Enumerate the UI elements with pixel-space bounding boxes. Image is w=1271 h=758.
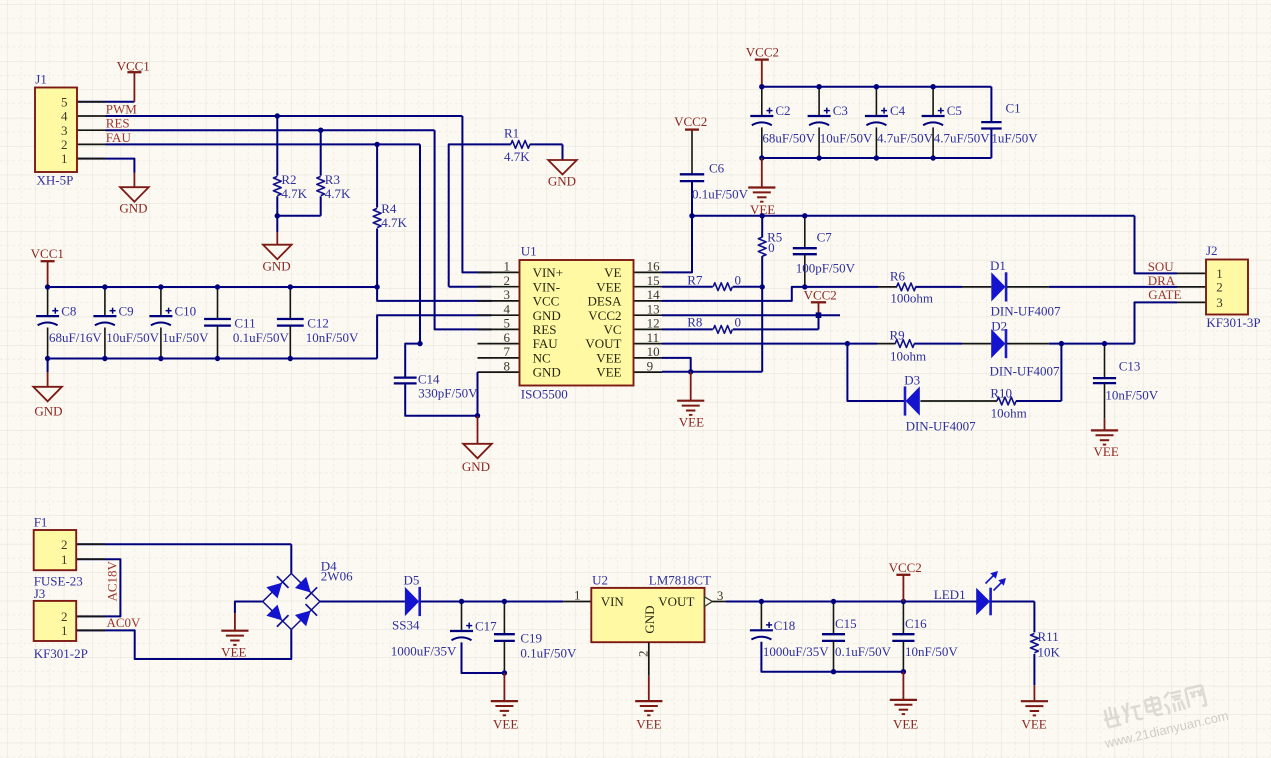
svg-text:0: 0	[768, 240, 775, 255]
svg-text:VEE: VEE	[636, 716, 661, 731]
svg-text:C10: C10	[175, 304, 197, 319]
svg-text:13: 13	[647, 301, 660, 316]
svg-text:C5: C5	[947, 103, 962, 118]
svg-text:GND: GND	[34, 404, 62, 419]
svg-text:DRA: DRA	[1148, 273, 1176, 288]
svg-text:14: 14	[647, 287, 661, 302]
svg-text:GND: GND	[533, 308, 561, 323]
svg-text:2: 2	[61, 609, 68, 624]
svg-text:10: 10	[647, 344, 660, 359]
svg-text:2: 2	[61, 137, 68, 152]
svg-text:R4: R4	[381, 201, 397, 216]
svg-text:C17: C17	[475, 619, 497, 634]
svg-text:R1: R1	[504, 125, 519, 140]
svg-text:4.7K: 4.7K	[325, 186, 351, 201]
svg-text:J3: J3	[34, 586, 46, 601]
svg-text:ISO5500: ISO5500	[521, 387, 568, 402]
svg-text:1uF/50V: 1uF/50V	[991, 131, 1038, 146]
svg-text:VIN-: VIN-	[533, 279, 560, 294]
svg-text:R9: R9	[890, 327, 905, 342]
svg-text:1: 1	[61, 552, 68, 567]
svg-text:VCC1: VCC1	[117, 58, 150, 73]
svg-text:VIN+: VIN+	[533, 265, 563, 280]
svg-text:11: 11	[647, 330, 660, 345]
svg-text:C14: C14	[418, 372, 440, 387]
svg-text:XH-5P: XH-5P	[37, 172, 74, 187]
svg-text:C12: C12	[307, 316, 329, 331]
svg-text:R10: R10	[990, 386, 1012, 401]
svg-text:LM7818CT: LM7818CT	[649, 573, 711, 588]
svg-text:1000uF/35V: 1000uF/35V	[763, 644, 829, 659]
svg-text:VEE: VEE	[1094, 444, 1119, 459]
svg-text:F1: F1	[34, 515, 48, 530]
svg-text:J1: J1	[35, 71, 47, 86]
svg-text:4.7K: 4.7K	[504, 149, 530, 164]
svg-text:VEE: VEE	[493, 716, 518, 731]
svg-text:68uF/16V: 68uF/16V	[49, 330, 102, 345]
svg-text:0: 0	[735, 315, 742, 330]
svg-text:VOUT: VOUT	[585, 336, 621, 351]
svg-text:4.7uF/50V: 4.7uF/50V	[934, 131, 991, 146]
svg-text:AC18V: AC18V	[105, 560, 120, 601]
svg-text:6: 6	[504, 330, 511, 345]
svg-text:100pF/50V: 100pF/50V	[796, 261, 856, 276]
svg-text:GND: GND	[642, 605, 657, 633]
svg-text:GND: GND	[263, 259, 291, 274]
svg-text:7: 7	[504, 344, 511, 359]
svg-text:KF301-3P: KF301-3P	[1206, 315, 1260, 330]
svg-text:C3: C3	[833, 103, 848, 118]
svg-text:D2: D2	[991, 319, 1007, 334]
svg-text:FAU: FAU	[106, 130, 132, 145]
svg-text:10nF/50V: 10nF/50V	[306, 330, 359, 345]
svg-text:VEE: VEE	[596, 351, 621, 366]
svg-text:GND: GND	[119, 200, 147, 215]
svg-text:3: 3	[61, 123, 68, 138]
svg-text:10ohm: 10ohm	[991, 405, 1027, 420]
svg-text:0.1uF/50V: 0.1uF/50V	[692, 187, 749, 202]
svg-text:0.1uF/50V: 0.1uF/50V	[520, 646, 577, 661]
svg-text:2: 2	[504, 273, 511, 288]
svg-text:R2: R2	[281, 172, 296, 187]
svg-text:10nF/50V: 10nF/50V	[1105, 387, 1158, 402]
svg-text:0: 0	[735, 273, 742, 288]
svg-text:VC: VC	[603, 322, 621, 337]
svg-text:VCC: VCC	[533, 294, 560, 309]
svg-text:C11: C11	[234, 316, 255, 331]
svg-text:R11: R11	[1038, 629, 1059, 644]
svg-text:VCC1: VCC1	[31, 246, 64, 261]
svg-text:C16: C16	[905, 616, 927, 631]
svg-text:C19: C19	[520, 630, 542, 645]
svg-text:KF301-2P: KF301-2P	[34, 646, 88, 661]
svg-text:1: 1	[61, 623, 68, 638]
svg-text:SOU: SOU	[1148, 259, 1175, 274]
svg-text:VEE: VEE	[1021, 716, 1046, 731]
svg-text:4: 4	[61, 109, 68, 124]
svg-text:8: 8	[504, 358, 511, 373]
svg-text:4.7uF/50V: 4.7uF/50V	[877, 131, 934, 146]
svg-text:DIN-UF4007: DIN-UF4007	[990, 364, 1061, 379]
svg-text:NC: NC	[533, 351, 551, 366]
svg-text:VEE: VEE	[893, 716, 918, 731]
svg-text:D3: D3	[904, 372, 920, 387]
svg-text:DESA: DESA	[588, 294, 623, 309]
svg-text:VEE: VEE	[221, 645, 246, 660]
svg-text:GND: GND	[548, 174, 576, 189]
svg-text:VEE: VEE	[596, 279, 621, 294]
svg-text:D5: D5	[404, 573, 420, 588]
svg-text:VOUT: VOUT	[658, 594, 694, 609]
svg-text:R8: R8	[687, 315, 702, 330]
svg-text:C6: C6	[709, 161, 725, 176]
svg-text:VIN: VIN	[601, 594, 625, 609]
svg-text:2: 2	[1216, 280, 1223, 295]
svg-text:1uF/50V: 1uF/50V	[162, 330, 209, 345]
svg-text:C1: C1	[1006, 101, 1021, 116]
svg-text:15: 15	[647, 273, 660, 288]
svg-text:FAU: FAU	[533, 336, 559, 351]
svg-text:C4: C4	[890, 103, 906, 118]
svg-text:RES: RES	[106, 116, 130, 131]
svg-text:VEE: VEE	[679, 414, 704, 429]
svg-text:VEE: VEE	[596, 365, 621, 380]
svg-text:4.7K: 4.7K	[281, 186, 307, 201]
svg-text:SS34: SS34	[392, 618, 420, 633]
svg-text:1000uF/35V: 1000uF/35V	[391, 644, 457, 659]
svg-text:AC0V: AC0V	[107, 615, 142, 630]
svg-text:100ohm: 100ohm	[890, 291, 933, 306]
svg-text:LED1: LED1	[934, 587, 966, 602]
svg-text:C8: C8	[61, 304, 76, 319]
svg-text:R3: R3	[325, 172, 340, 187]
svg-text:R7: R7	[687, 273, 703, 288]
svg-text:4: 4	[504, 301, 511, 316]
svg-text:RES: RES	[533, 322, 557, 337]
svg-text:68uF/50V: 68uF/50V	[762, 131, 815, 146]
svg-text:3: 3	[504, 287, 511, 302]
svg-text:3: 3	[1216, 295, 1223, 310]
svg-text:GND: GND	[533, 365, 561, 380]
svg-text:VCC2: VCC2	[588, 308, 621, 323]
svg-text:VCC2: VCC2	[674, 114, 707, 129]
svg-text:12: 12	[647, 316, 660, 331]
svg-text:DIN-UF4007: DIN-UF4007	[991, 303, 1062, 318]
svg-text:0.1uF/50V: 0.1uF/50V	[233, 330, 290, 345]
svg-text:1: 1	[504, 259, 511, 274]
svg-text:1: 1	[61, 151, 68, 166]
svg-text:C2: C2	[775, 103, 790, 118]
svg-text:VE: VE	[604, 265, 621, 280]
svg-text:2: 2	[61, 537, 68, 552]
svg-text:330pF/50V: 330pF/50V	[418, 386, 478, 401]
svg-text:5: 5	[504, 316, 511, 331]
svg-text:0.1uF/50V: 0.1uF/50V	[835, 644, 892, 659]
svg-text:10uF/50V: 10uF/50V	[820, 131, 873, 146]
svg-text:5: 5	[61, 94, 68, 109]
svg-text:2W06: 2W06	[321, 569, 353, 584]
svg-text:10nF/50V: 10nF/50V	[905, 644, 958, 659]
svg-text:3: 3	[717, 588, 724, 603]
svg-text:U2: U2	[592, 573, 608, 588]
svg-text:C9: C9	[119, 304, 134, 319]
svg-text:C18: C18	[774, 618, 796, 633]
svg-text:VCC2: VCC2	[746, 45, 779, 60]
svg-text:C15: C15	[835, 616, 857, 631]
svg-text:U1: U1	[521, 243, 537, 258]
svg-text:10uF/50V: 10uF/50V	[106, 330, 159, 345]
svg-text:10K: 10K	[1038, 645, 1061, 660]
svg-text:4.7K: 4.7K	[381, 215, 407, 230]
svg-text:GND: GND	[462, 459, 490, 474]
svg-text:J2: J2	[1206, 243, 1218, 258]
svg-text:VCC2: VCC2	[804, 287, 837, 302]
svg-text:C7: C7	[817, 229, 833, 244]
svg-text:R6: R6	[890, 269, 906, 284]
svg-text:1: 1	[574, 588, 581, 603]
svg-text:DIN-UF4007: DIN-UF4007	[906, 419, 977, 434]
svg-text:GATE: GATE	[1148, 287, 1181, 302]
svg-text:C13: C13	[1119, 359, 1141, 374]
svg-text:16: 16	[647, 259, 661, 274]
svg-text:9: 9	[647, 358, 654, 373]
svg-text:D1: D1	[990, 258, 1006, 273]
svg-text:10ohm: 10ohm	[890, 348, 926, 363]
svg-text:VCC2: VCC2	[889, 560, 922, 575]
svg-text:PWM: PWM	[106, 102, 138, 117]
